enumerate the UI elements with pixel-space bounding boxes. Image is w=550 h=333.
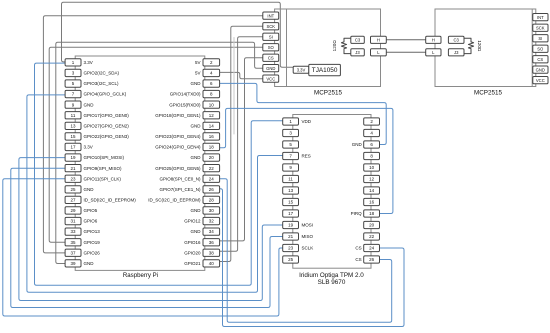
RPi pin 7 (65, 90, 81, 97)
svg-text:37: 37 (70, 250, 76, 255)
svg-text:ID_SD(I2C_ID_EEPROM): ID_SD(I2C_ID_EEPROM) (84, 198, 137, 203)
svg-text:120Ω: 120Ω (477, 40, 482, 52)
svg-text:33: 33 (70, 229, 76, 234)
svg-text:15: 15 (288, 200, 294, 205)
TPM pin 16 (364, 198, 380, 205)
TPM pin 24 (364, 244, 380, 251)
MCP1 pin SO (263, 44, 279, 51)
svg-text:GND: GND (84, 261, 95, 266)
MCP1 pin H (371, 36, 387, 43)
svg-text:MISO: MISO (302, 234, 314, 239)
RPi pin 33 (65, 228, 81, 235)
svg-text:GPIO23(GPIO_GEN4): GPIO23(GPIO_GEN4) (155, 134, 201, 139)
svg-text:17: 17 (288, 211, 294, 216)
svg-text:H: H (432, 38, 435, 43)
svg-text:19: 19 (70, 155, 76, 160)
wire VDD: RPi pin1 3.3V to TPM pin1 VDD (35, 63, 283, 285)
svg-text:GPIO27(GPIO_GEN2): GPIO27(GPIO_GEN2) (84, 123, 130, 128)
svg-text:32: 32 (209, 219, 215, 224)
TPM pin 25 (283, 256, 299, 263)
svg-text:25: 25 (288, 257, 294, 262)
svg-text:SO: SO (268, 45, 275, 50)
RPi pin 15 (65, 133, 81, 140)
svg-text:26: 26 (369, 257, 375, 262)
svg-text:GND: GND (266, 66, 275, 71)
svg-text:3.3V: 3.3V (84, 60, 93, 65)
TPM pin 11 (283, 175, 299, 182)
MCP2 pin VCC (533, 77, 548, 84)
svg-text:SI: SI (269, 34, 273, 39)
TPM pin 21 (283, 233, 299, 240)
RPi pin 8 (203, 90, 220, 97)
TPM pin 8 (364, 152, 380, 159)
svg-text:GND: GND (191, 123, 202, 128)
RPi pin 13 (65, 122, 81, 129)
svg-text:39: 39 (70, 261, 76, 266)
RPi pin 17 (65, 143, 81, 150)
svg-text:21: 21 (288, 234, 294, 239)
svg-text:CS: CS (355, 257, 361, 262)
RPi pin 36 (203, 239, 220, 246)
svg-text:CS: CS (268, 55, 274, 60)
svg-text:GPIO3(I2C_SCL): GPIO3(I2C_SCL) (84, 81, 120, 86)
svg-text:20: 20 (209, 155, 215, 160)
svg-text:VDD: VDD (302, 119, 312, 124)
TPM pin 12 (364, 175, 380, 182)
MCP2 pin SI (533, 35, 548, 42)
svg-text:23: 23 (70, 176, 76, 181)
svg-text:17: 17 (70, 145, 76, 150)
svg-text:GPIO24(GPIO_GEN4): GPIO24(GPIO_GEN4) (155, 145, 201, 150)
MCP1 pin CS (263, 54, 279, 61)
wire SO: RPi pin35 GPIO19 to MCP2515 SO (49, 47, 263, 242)
wire INT: RPi pin37 GPIO26 to MCP2515 INT (43, 16, 262, 253)
resistor R1 120ohm (341, 38, 350, 53)
RPi pin 9 (65, 101, 81, 108)
RPi pin 12 (203, 112, 220, 119)
svg-text:GPIO2(I2C_SDA): GPIO2(I2C_SDA) (84, 71, 120, 76)
svg-text:120Ω: 120Ω (332, 40, 337, 52)
svg-text:RES: RES (302, 154, 311, 159)
svg-text:CS: CS (355, 246, 361, 251)
MCP2 pin H (426, 36, 441, 43)
RPi pin 32 (203, 217, 220, 224)
svg-text:GND: GND (191, 155, 202, 160)
svg-text:GPIO22(GPIO_GEN3): GPIO22(GPIO_GEN3) (84, 134, 130, 139)
svg-text:5V: 5V (195, 60, 201, 65)
svg-text:22: 22 (369, 234, 375, 239)
svg-text:18: 18 (369, 211, 375, 216)
MCP2 terminal J3 (448, 49, 464, 56)
svg-text:SLB 9670: SLB 9670 (318, 279, 346, 286)
RPi pin 4 (203, 69, 220, 76)
svg-text:GPIO11(SPI_CLK): GPIO11(SPI_CLK) (84, 176, 122, 181)
TPM pin 10 (364, 164, 380, 171)
svg-text:24: 24 (209, 176, 215, 181)
wire GND blue: RPi pin6 to TPM pin6 GND (220, 83, 387, 144)
TPM pin 26 (364, 256, 380, 263)
RPi pin 22 (203, 165, 220, 172)
resistor R2 120ohm (464, 38, 474, 53)
svg-text:GPIO9(SPI_MISO): GPIO9(SPI_MISO) (84, 166, 123, 171)
TPM pin 22 (364, 233, 380, 240)
svg-text:5V: 5V (195, 71, 201, 76)
svg-text:GPIO19: GPIO19 (84, 240, 101, 245)
MCP1 pin SCK (263, 23, 279, 30)
svg-text:MCP2515: MCP2515 (314, 90, 342, 97)
wire MISO: RPi pin21 GPIO9 to TPM pin21 MISO (11, 168, 283, 307)
RPi pin 31 (65, 217, 81, 224)
TPM pin 5 (283, 141, 299, 148)
svg-text:INT: INT (537, 15, 544, 20)
TPM pin 1 (283, 118, 299, 125)
RPi pin 39 (65, 260, 81, 267)
MCP1 pin SI (263, 33, 279, 40)
svg-text:GND: GND (352, 142, 363, 147)
svg-text:TJA1050: TJA1050 (312, 67, 338, 74)
RPi pin 6 (203, 80, 220, 87)
svg-text:CS: CS (537, 57, 543, 62)
RPi pin 34 (203, 228, 220, 235)
wire SCLK: RPi pin23 GPIO11 to TPM pin23 SCLK (3, 179, 283, 316)
svg-text:23: 23 (288, 246, 294, 251)
svg-text:16: 16 (369, 200, 375, 205)
svg-text:GPIO15(RXD0): GPIO15(RXD0) (169, 102, 201, 107)
RPi pin 29 (65, 207, 81, 214)
TPM pin 19 (283, 221, 299, 228)
svg-text:GND: GND (84, 102, 95, 107)
svg-text:29: 29 (70, 208, 76, 213)
svg-text:25: 25 (70, 187, 76, 192)
svg-text:SO: SO (537, 46, 544, 51)
svg-text:SCK: SCK (536, 25, 545, 30)
svg-text:GPIO4(GPIO_GCLK): GPIO4(GPIO_GCLK) (84, 92, 127, 97)
TPM pin 6 (364, 141, 380, 148)
svg-text:SCLK: SCLK (302, 246, 314, 251)
svg-text:GPIO16: GPIO16 (184, 240, 201, 245)
svg-text:VCC: VCC (266, 76, 275, 81)
svg-text:GPIO5: GPIO5 (84, 208, 98, 213)
TPM SLB9670 body (293, 115, 371, 269)
wire CS0: RPi pin24 SPI_CE0_N to TPM pin26 CS (220, 179, 392, 322)
TPM pin 3 (283, 129, 299, 136)
TPM pin 23 (283, 244, 299, 251)
svg-text:27: 27 (70, 198, 76, 203)
svg-text:GPIO17(GPIO_GEN0): GPIO17(GPIO_GEN0) (84, 113, 130, 118)
RPi pin 18 (203, 143, 220, 150)
svg-text:GPIO6: GPIO6 (84, 219, 98, 224)
svg-text:19: 19 (288, 223, 294, 228)
svg-text:10: 10 (209, 102, 215, 107)
svg-text:C3: C3 (355, 38, 361, 43)
RPi pin 38 (203, 249, 220, 256)
svg-text:35: 35 (70, 240, 76, 245)
RPi pin 28 (203, 196, 220, 203)
wire CANH: MCP2515#1 H to MCP2515#2 H (386, 39, 425, 41)
TPM pin 13 (283, 187, 299, 194)
wire SI: RPi pin38 GPIO20 to MCP2515 SI (220, 37, 263, 252)
wire VCC: RPi pin4 5V to MCP2515 VCC (220, 72, 263, 78)
TPM pin 15 (283, 198, 299, 205)
svg-text:3.3V: 3.3V (84, 145, 93, 150)
svg-text:15: 15 (70, 134, 76, 139)
MCP1 terminal C3 (351, 36, 365, 43)
MCP2 terminal C3 (448, 36, 464, 43)
RPi pin 14 (203, 122, 220, 129)
MCP1 terminal J3 (351, 49, 365, 56)
svg-text:GPIO20: GPIO20 (184, 250, 201, 255)
svg-text:38: 38 (209, 250, 215, 255)
RPi pin 27 (65, 196, 81, 203)
svg-text:INT: INT (267, 13, 274, 18)
TPM pin 20 (364, 221, 380, 228)
RPi pin 1 (65, 59, 81, 66)
MCP1 pin L (371, 49, 387, 56)
wire PIRQ: RPi pin18 GPIO24 to TPM pin18 PIRQ (220, 108, 393, 213)
svg-text:GPIO25(GPIO_GEN5): GPIO25(GPIO_GEN5) (155, 166, 201, 171)
svg-text:VCC: VCC (536, 78, 545, 83)
MCP2 pin SO (533, 45, 548, 52)
RPi pin 19 (65, 154, 81, 161)
svg-text:26: 26 (209, 187, 215, 192)
transceiver TJA1050 U2 (309, 64, 341, 75)
RPi pin 10 (203, 101, 220, 108)
RPi pin 5 (65, 80, 81, 87)
svg-text:3.3V: 3.3V (297, 68, 306, 73)
TPM pin 2 (364, 118, 380, 125)
RPi pin 37 (65, 249, 81, 256)
wire MOSI: RPi pin19 GPIO10 to TPM pin19 MOSI (19, 158, 283, 301)
wire 3.3V: RPi pin1 to MCP2515 3.3V box (62, 2, 294, 67)
svg-text:Raspberry Pi: Raspberry Pi (123, 272, 158, 279)
MCP2 pin L (426, 49, 441, 56)
MCP1 pin INT (263, 12, 279, 19)
Raspberry Pi U1 body (75, 56, 205, 270)
RPi pin 23 (65, 175, 81, 182)
svg-text:GND: GND (536, 67, 545, 72)
svg-text:30: 30 (209, 208, 215, 213)
svg-text:C3: C3 (454, 38, 460, 43)
svg-text:SCK: SCK (266, 24, 275, 29)
svg-text:GND: GND (191, 229, 202, 234)
TPM pin 9 (283, 164, 299, 171)
svg-text:14: 14 (209, 123, 215, 128)
svg-text:GPIO10(SPI_MOSI): GPIO10(SPI_MOSI) (84, 155, 125, 160)
svg-text:11: 11 (288, 177, 293, 182)
svg-text:28: 28 (209, 198, 215, 203)
svg-text:PIRQ: PIRQ (351, 211, 363, 216)
svg-text:20: 20 (369, 223, 375, 228)
svg-text:22: 22 (209, 166, 215, 171)
svg-text:GPIO13: GPIO13 (84, 229, 101, 234)
svg-text:MCP2515: MCP2515 (474, 90, 502, 97)
svg-text:GPIO7(SPI_CE1_N): GPIO7(SPI_CE1_N) (159, 187, 201, 192)
MCP1 pin VCC (263, 75, 279, 82)
RPi pin 26 (203, 186, 220, 193)
svg-text:14: 14 (369, 188, 375, 193)
svg-text:GPIO12: GPIO12 (184, 219, 201, 224)
MCP2515 #1 body (287, 9, 381, 87)
svg-text:18: 18 (209, 145, 215, 150)
svg-text:13: 13 (70, 123, 76, 128)
svg-text:MOSI: MOSI (302, 223, 314, 228)
TPM pin 14 (364, 187, 380, 194)
MCP2515 #2 body (435, 9, 532, 87)
svg-text:13: 13 (288, 188, 294, 193)
wire CANL: MCP2515#1 L to MCP2515#2 L (386, 51, 425, 53)
TPM pin 18 (364, 210, 380, 217)
svg-text:12: 12 (369, 177, 375, 182)
svg-text:H: H (377, 38, 380, 43)
RPi pin 30 (203, 207, 220, 214)
svg-text:GPIO14(TXD0): GPIO14(TXD0) (170, 92, 201, 97)
MCP2 pin CS (533, 56, 548, 63)
svg-text:GND: GND (84, 187, 95, 192)
wire SCK: RPi pin40 GPIO21 to MCP2515 SCK (220, 26, 263, 261)
RPi pin 16 (203, 133, 220, 140)
svg-text:J3: J3 (454, 50, 459, 55)
TPM pin 7 (283, 152, 299, 159)
RPi pin 25 (65, 186, 81, 193)
svg-text:J3: J3 (355, 50, 360, 55)
MCP1 3.3V box (293, 66, 309, 73)
svg-text:ID_SC(I2C_ID_EEPROM): ID_SC(I2C_ID_EEPROM) (148, 198, 201, 203)
svg-text:GPIO21: GPIO21 (184, 261, 201, 266)
svg-text:31: 31 (70, 219, 76, 224)
RPi pin 24 (203, 175, 220, 182)
svg-text:36: 36 (209, 240, 215, 245)
svg-text:GPIO8(SPI_CE0_N): GPIO8(SPI_CE0_N) (159, 176, 201, 181)
TPM pin 17 (283, 210, 299, 217)
wire GND: RPi pin39 to MCP2515 GND (56, 42, 263, 263)
svg-text:GPIO26: GPIO26 (84, 250, 101, 255)
svg-text:21: 21 (70, 166, 76, 171)
svg-text:24: 24 (369, 246, 375, 251)
MCP2 pin GND (533, 66, 548, 73)
wire CS1: RPi pin26 SPI_CE1_N to TPM pin24 CS (220, 189, 404, 327)
svg-text:GND: GND (191, 208, 202, 213)
RPi pin 40 (203, 260, 220, 267)
RPi pin 20 (203, 154, 220, 161)
TPM pin 4 (364, 129, 380, 136)
svg-text:GND: GND (191, 81, 202, 86)
svg-text:11: 11 (71, 113, 76, 118)
svg-text:SI: SI (538, 36, 542, 41)
wire CS: RPi pin36 GPIO16 to MCP2515 CS (220, 58, 263, 241)
RPi pin 35 (65, 239, 81, 246)
wire RES: RPi pin7 GPIO4 to TPM pin7 RES (27, 95, 283, 292)
RPi pin 3 (65, 69, 81, 76)
MCP1 pin GND (263, 65, 279, 72)
RPi pin 11 (65, 112, 81, 119)
RPi pin 2 (203, 59, 220, 66)
wire stub faint vertical (233, 38, 235, 135)
svg-text:12: 12 (209, 113, 215, 118)
svg-text:GPIO18(GPIO_GEN1): GPIO18(GPIO_GEN1) (155, 113, 201, 118)
MCP2 pin INT (533, 14, 548, 21)
svg-text:16: 16 (209, 134, 215, 139)
svg-text:10: 10 (369, 165, 375, 170)
MCP2 pin SCK (533, 24, 548, 31)
RPi pin 21 (65, 165, 81, 172)
svg-text:34: 34 (209, 229, 215, 234)
svg-text:40: 40 (209, 261, 215, 266)
